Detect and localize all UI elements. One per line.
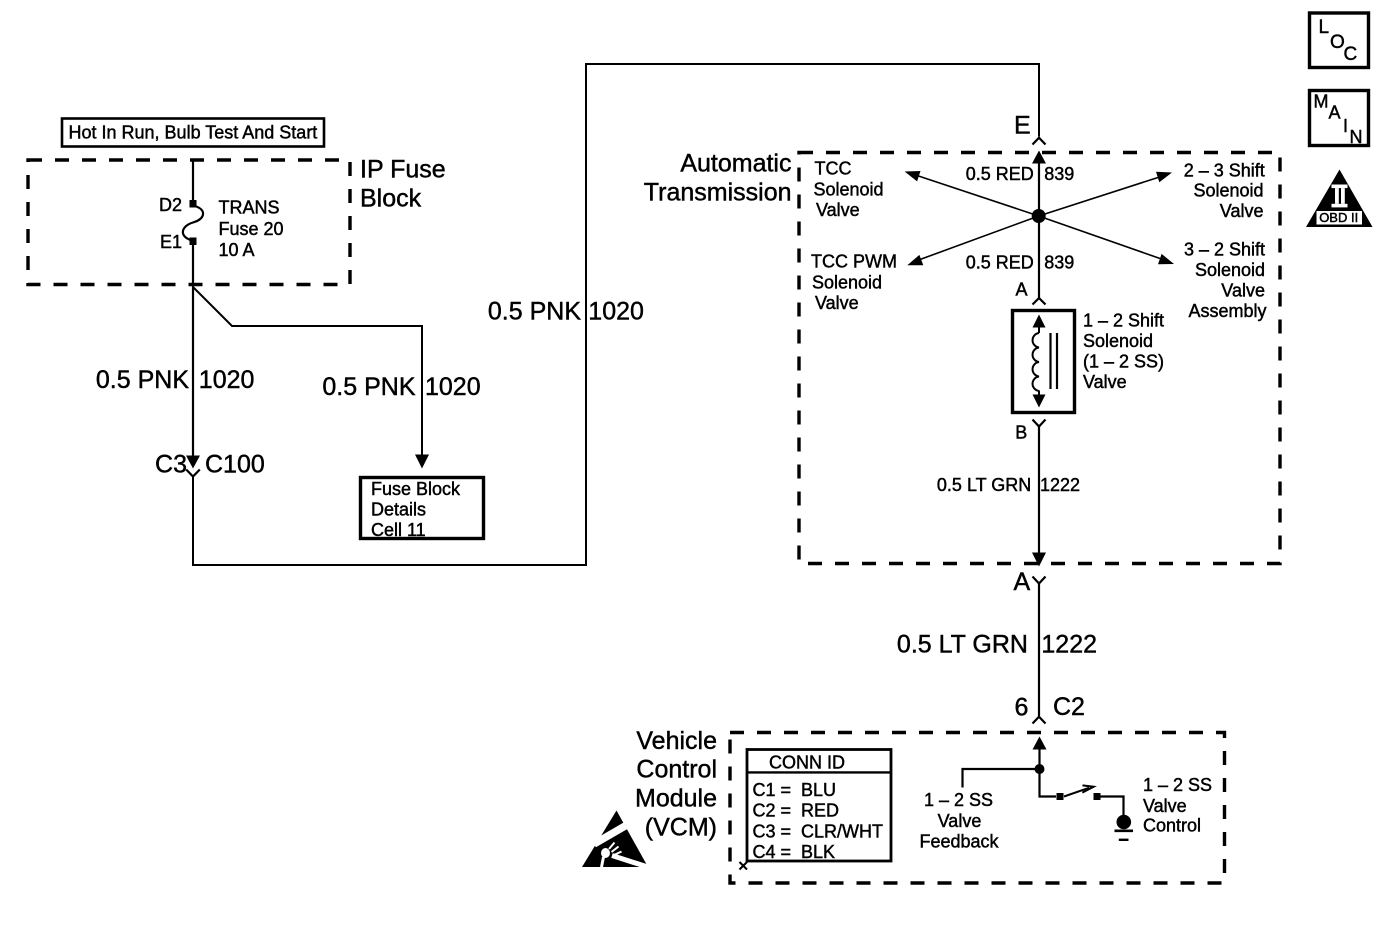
- LOC reference box: [1310, 13, 1369, 68]
- 1-2 shift solenoid coil box: [1013, 311, 1075, 413]
- svg-text:1020: 1020: [588, 298, 644, 326]
- svg-text:6: 6: [1015, 694, 1029, 722]
- MAIN reference box: [1310, 91, 1369, 148]
- svg-text:IP Fuse: IP Fuse: [360, 156, 446, 184]
- wire: branch diagonal to cell-11 arrow: [193, 287, 422, 456]
- wire: transmission to VCM: [1038, 584, 1040, 717]
- label 1-2 SS Valve Control: [1143, 775, 1212, 836]
- svg-text:Solenoid: Solenoid: [812, 273, 882, 293]
- svg-text:B: B: [1015, 423, 1027, 443]
- svg-text:Valve: Valve: [1083, 372, 1127, 392]
- svg-text:839: 839: [1044, 252, 1074, 272]
- svg-text:1020: 1020: [199, 366, 255, 394]
- svg-text:C: C: [1344, 44, 1358, 65]
- svg-text:Transmission: Transmission: [644, 179, 792, 207]
- svg-text:Fuse 20: Fuse 20: [219, 219, 284, 239]
- svg-text:Valve: Valve: [1143, 796, 1187, 816]
- svg-text:0.5 LT GRN: 0.5 LT GRN: [937, 475, 1031, 495]
- connector B (female chevron): [1033, 420, 1046, 427]
- coil winding with arrows: [1033, 315, 1046, 328]
- arrowhead into Fuse Block Details: [415, 455, 429, 469]
- svg-text:Control: Control: [636, 756, 717, 784]
- label TRANS Fuse 20 10 A: [219, 198, 284, 261]
- svg-text:I: I: [1343, 116, 1348, 136]
- label TCC Solenoid Valve: [814, 159, 884, 221]
- arrow to 3-2 Shift Solenoid Valve Assembly: [1039, 216, 1174, 264]
- svg-text:Solenoid: Solenoid: [814, 180, 884, 200]
- svg-text:C3: C3: [155, 451, 187, 479]
- svg-text:Module: Module: [635, 785, 717, 813]
- svg-text:E: E: [1014, 112, 1031, 140]
- svg-text:1 – 2 SS: 1 – 2 SS: [924, 790, 993, 810]
- svg-text:0.5 PNK: 0.5 PNK: [96, 366, 189, 394]
- fuse element (S-curve): [183, 206, 203, 240]
- IP fuse block (dashed box): [28, 160, 350, 285]
- label 1-2 Shift Solenoid (1-2 SS) Valve: [1083, 311, 1164, 393]
- svg-text:C100: C100: [205, 451, 265, 479]
- arrowhead at transmission connector: [1032, 553, 1046, 567]
- svg-text:(1 – 2 SS): (1 – 2 SS): [1083, 352, 1164, 372]
- svg-text:L: L: [1319, 17, 1330, 38]
- svg-text:TCC PWM: TCC PWM: [811, 252, 897, 272]
- arrow to 2-3 Shift Solenoid Valve: [1039, 172, 1172, 216]
- connector A (female chevron at case): [1033, 577, 1046, 584]
- CONN ID table: [747, 750, 891, 863]
- label TCC PWM Solenoid Valve: [811, 252, 897, 314]
- ESD sensitive device symbol: [582, 811, 651, 869]
- svg-text:Block: Block: [360, 185, 422, 213]
- svg-text:Valve: Valve: [938, 811, 982, 831]
- wire: C100 down, right, up and across to E: [193, 64, 1039, 565]
- svg-text:OBD II: OBD II: [1319, 210, 1358, 225]
- svg-text:TCC: TCC: [815, 159, 852, 179]
- label 0.5 RED 839 (lower): [966, 252, 1074, 272]
- label 6 / C2: [1015, 693, 1085, 722]
- x mark at table corner: [740, 862, 748, 870]
- wire: junction down to driver switch: [1040, 769, 1057, 797]
- svg-text:10 A: 10 A: [219, 240, 255, 260]
- svg-text:(VCM): (VCM): [645, 814, 717, 842]
- svg-text:0.5 RED: 0.5 RED: [966, 252, 1034, 272]
- svg-text:C2: C2: [1053, 693, 1085, 721]
- wire arrow into transmission at E: [1032, 151, 1046, 164]
- svg-text:Valve: Valve: [1220, 201, 1264, 221]
- wire: solenoid B down to transmission case connector: [1038, 427, 1040, 557]
- feed box "Hot In Run, Bulb Test And Start": [62, 119, 324, 147]
- svg-text:D2: D2: [159, 195, 182, 215]
- svg-text:Automatic: Automatic: [680, 150, 791, 178]
- ground symbol: [1115, 815, 1134, 840]
- connector A (female chevron): [1033, 298, 1046, 305]
- connector C2 (female chevron): [1033, 717, 1046, 724]
- svg-text:C2 = RED: C2 = RED: [753, 801, 840, 821]
- junction node in VCM: [1035, 764, 1045, 774]
- wire: to 1-2 SS valve feedback: [963, 769, 1040, 788]
- solenoid core bars: [1049, 333, 1051, 389]
- svg-text:Valve: Valve: [816, 200, 860, 220]
- svg-text:3 – 2 Shift: 3 – 2 Shift: [1184, 240, 1265, 260]
- svg-text:1020: 1020: [425, 373, 481, 401]
- svg-text:Solenoid: Solenoid: [1193, 181, 1263, 201]
- svg-text:A: A: [1329, 103, 1341, 123]
- svg-text:839: 839: [1044, 164, 1074, 184]
- switch terminal (right): [1094, 793, 1101, 800]
- svg-text:TRANS: TRANS: [219, 198, 280, 218]
- svg-text:Control: Control: [1143, 816, 1201, 836]
- svg-text:1 – 2 SS: 1 – 2 SS: [1143, 775, 1212, 795]
- label 2-3 Shift Solenoid Valve: [1184, 161, 1265, 222]
- svg-text:C1 = BLU: C1 = BLU: [753, 780, 837, 800]
- label C3 / C100: [155, 451, 265, 479]
- svg-text:2 – 3 Shift: 2 – 3 Shift: [1184, 161, 1265, 181]
- connector E (female chevron): [1033, 138, 1046, 145]
- svg-text:0.5 LT GRN: 0.5 LT GRN: [897, 631, 1028, 659]
- label 0.5 RED 839 (upper): [966, 164, 1074, 184]
- svg-text:N: N: [1350, 127, 1363, 147]
- svg-text:0.5 PNK: 0.5 PNK: [488, 298, 581, 326]
- svg-text:Valve: Valve: [815, 293, 859, 313]
- label Automatic Transmission: [644, 150, 792, 207]
- connector C3/C100 (male arrow + female chevron): [186, 456, 200, 477]
- label Vehicle Control Module (VCM): [635, 727, 717, 842]
- svg-text:M: M: [1314, 92, 1329, 112]
- svg-text:Solenoid: Solenoid: [1083, 331, 1153, 351]
- svg-text:Solenoid: Solenoid: [1195, 260, 1265, 280]
- svg-text:1222: 1222: [1040, 475, 1080, 495]
- label 0.5 PNK 1020 (left wire): [96, 366, 255, 394]
- svg-text:1 – 2 Shift: 1 – 2 Shift: [1083, 311, 1164, 331]
- switch blade with arrow: [1064, 788, 1089, 797]
- svg-text:Fuse Block: Fuse Block: [371, 479, 461, 499]
- automatic transmission dashed box: [799, 153, 1280, 564]
- label 3-2 Shift Solenoid Valve Assembly: [1184, 240, 1267, 322]
- svg-text:Hot In Run, Bulb Test And Star: Hot In Run, Bulb Test And Start: [69, 123, 318, 143]
- wire: fuse output down to C100: [192, 243, 194, 460]
- svg-text:C3 = CLR/WHT: C3 = CLR/WHT: [753, 821, 884, 841]
- Fuse Block Details Cell 11 box: [361, 478, 484, 541]
- label 0.5 PNK 1020 (long wire): [488, 298, 644, 326]
- svg-text:C4 = BLK: C4 = BLK: [753, 842, 836, 862]
- svg-text:1222: 1222: [1041, 631, 1097, 659]
- wire: feed into fuse: [192, 159, 194, 203]
- label 1-2 SS Valve Feedback: [919, 790, 999, 852]
- svg-text:Details: Details: [371, 500, 426, 520]
- svg-text:CONN ID: CONN ID: [769, 752, 845, 772]
- label 0.5 LT GRN 1222 (inside transmission): [937, 475, 1080, 495]
- wire arrow into VCM at C2: [1033, 737, 1047, 750]
- svg-text:A: A: [1016, 280, 1028, 300]
- label 0.5 PNK 1020 (branch wire): [322, 373, 480, 401]
- switch terminal (left): [1057, 793, 1064, 800]
- OBD II triangle badge: [1306, 170, 1373, 228]
- svg-text:0.5 PNK: 0.5 PNK: [322, 373, 415, 401]
- splice junction node: [1032, 209, 1046, 223]
- svg-text:A: A: [1014, 568, 1031, 596]
- fuse TRANS Fuse 20 terminal D2: [190, 200, 197, 208]
- fuse terminal E1: [190, 238, 197, 246]
- svg-text:Cell 11: Cell 11: [371, 520, 426, 540]
- svg-text:E1: E1: [160, 232, 182, 252]
- svg-text:Valve: Valve: [1221, 281, 1265, 301]
- svg-text:Feedback: Feedback: [919, 832, 999, 852]
- wire: switch to ground: [1101, 797, 1124, 816]
- svg-text:Assembly: Assembly: [1188, 301, 1266, 321]
- label IP Fuse Block: [360, 156, 446, 213]
- arrow to TCC PWM Solenoid Valve: [907, 216, 1038, 265]
- VCM dashed box: [730, 733, 1225, 884]
- label 0.5 LT GRN 1222 (lower): [897, 631, 1097, 659]
- svg-text:Vehicle: Vehicle: [636, 727, 717, 755]
- svg-text:0.5 RED: 0.5 RED: [966, 164, 1034, 184]
- arrow to TCC Solenoid Valve: [905, 171, 1039, 216]
